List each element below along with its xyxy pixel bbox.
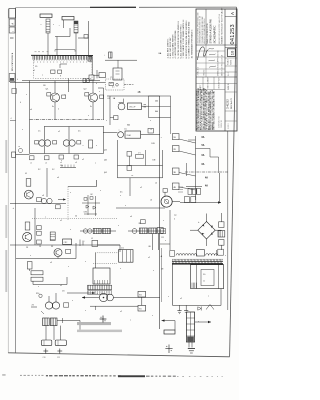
connector stub right bbox=[93, 74, 99, 76]
bracket tick bbox=[62, 318, 64, 323]
resistor network RN3 bbox=[50, 232, 55, 240]
wire top rail y80.6 bbox=[22, 80, 100, 82]
svg-text:x6: x6 bbox=[60, 162, 62, 164]
capacitor C8 bbox=[92, 240, 98, 246]
scan smudge 3 bbox=[5, 250, 7, 292]
slant wire 1 bbox=[179, 139, 196, 143]
left vertical x172.5 bbox=[172, 264, 174, 305]
svg-text:x: x bbox=[168, 296, 169, 298]
svg-text:x: x bbox=[153, 270, 154, 272]
inductor L4 bbox=[149, 228, 157, 234]
resistor R41 vertical bbox=[27, 262, 32, 269]
svg-text:x: x bbox=[41, 24, 42, 26]
wire over boxes bbox=[186, 186, 202, 188]
right bus x159.7 bbox=[159, 96, 161, 329]
svg-text:x: x bbox=[120, 268, 121, 270]
small box x115 bbox=[114, 116, 118, 120]
svg-text:+n: +n bbox=[131, 175, 133, 177]
resistor R13 bbox=[100, 95, 104, 98]
svg-text:x: x bbox=[161, 137, 162, 139]
svg-text:x2: x2 bbox=[82, 159, 84, 161]
connector J5 pin labels bbox=[34, 61, 90, 62]
title block divider h77 bbox=[196, 76, 237, 78]
svg-text:x: x bbox=[22, 129, 23, 131]
svg-text:x: x bbox=[96, 145, 97, 147]
inductor bar L5 bbox=[164, 330, 175, 334]
transformer T2 box bbox=[93, 268, 110, 284]
ground under tall comp bbox=[188, 342, 190, 348]
wire x29.7 drop bbox=[29, 269, 31, 271]
svg-text:x: x bbox=[120, 195, 121, 197]
svg-text:8: 8 bbox=[96, 83, 97, 85]
svg-text:x: x bbox=[95, 163, 96, 165]
svg-text:A: A bbox=[230, 12, 235, 15]
wire bottom bus y82 bbox=[10, 82, 105, 84]
transistor Q2 bbox=[89, 93, 98, 102]
border left outer bbox=[7, 9, 9, 353]
svg-text:DESCRIPTION: DESCRIPTION bbox=[219, 77, 221, 89]
svg-text:x2: x2 bbox=[120, 311, 122, 313]
svg-text:x: x bbox=[85, 261, 86, 263]
wire Q4 up bbox=[68, 127, 70, 141]
long wire y297 bbox=[82, 297, 99, 299]
coil box bbox=[196, 250, 204, 256]
svg-text:CR2: CR2 bbox=[64, 242, 68, 244]
wire box bottom right bbox=[220, 289, 222, 306]
svg-text:x: x bbox=[45, 217, 46, 219]
gate bracket bbox=[119, 99, 124, 103]
svg-text:CR3: CR3 bbox=[84, 212, 87, 214]
bus dash-dot y119.5 bbox=[30, 119, 105, 121]
capacitor C2 pair bbox=[83, 79, 86, 83]
footer dark segment bbox=[118, 375, 145, 377]
svg-text:920 DISC DRIVE SCOTTS VALLEY C: 920 DISC DRIVE SCOTTS VALLEY CA bbox=[218, 13, 221, 44]
svg-text:9. CONNECT SHIELD AT SINGLE EN: 9. CONNECT SHIELD AT SINGLE END bbox=[188, 21, 191, 58]
wire rail y153.5 bbox=[30, 153, 104, 155]
wire osc right bbox=[142, 105, 149, 107]
svg-text:x: x bbox=[65, 94, 66, 96]
wire rail y245 bbox=[10, 244, 120, 246]
wire x129 drop bbox=[128, 156, 130, 166]
svg-text:4. LAST REF DES USED R88: 4. LAST REF DES USED R88 bbox=[174, 30, 177, 59]
coil arcs 1 bbox=[176, 254, 197, 256]
resistor R19 bbox=[59, 155, 64, 159]
left border tick bbox=[10, 120, 16, 122]
diode CR8 bbox=[198, 307, 201, 310]
left small box bbox=[12, 89, 16, 94]
label 2B box bbox=[148, 128, 153, 133]
svg-text:x2: x2 bbox=[58, 131, 60, 133]
svg-text:x: x bbox=[152, 315, 153, 317]
wire Q1 collector up bbox=[54, 81, 56, 93]
wire y231 right bbox=[128, 230, 165, 232]
inductor pair hatched box 2 bbox=[50, 318, 57, 326]
small circle node bbox=[18, 148, 22, 152]
svg-text:L1: L1 bbox=[91, 238, 93, 240]
label box 3D bbox=[172, 168, 179, 174]
svg-text:x4: x4 bbox=[30, 109, 32, 111]
wire y306 bbox=[90, 305, 138, 307]
wire cluster h bbox=[82, 202, 100, 204]
transistor Q6c bbox=[47, 198, 52, 203]
resistor R4 bbox=[58, 70, 62, 73]
wire y245 stub bbox=[98, 244, 120, 246]
revision dash bbox=[10, 37, 14, 39]
capacitor to gnd 1 bbox=[179, 305, 181, 310]
right stack wire bbox=[220, 213, 222, 222]
dotted line y218.5 bbox=[32, 218, 118, 220]
wire horiz y38 bbox=[78, 37, 89, 39]
scan smudge 1 bbox=[5, 140, 7, 173]
box inner ticks bbox=[191, 283, 193, 288]
box inner rect bbox=[201, 270, 214, 286]
staircase h2 bbox=[196, 148, 211, 150]
IC U2 box bbox=[125, 131, 141, 138]
svg-text:6. ALL DIODES ARE IN4148 TYPE: 6. ALL DIODES ARE IN4148 TYPE X bbox=[179, 24, 182, 59]
svg-text:24: 24 bbox=[75, 216, 77, 218]
svg-text:R50: R50 bbox=[36, 293, 39, 295]
svg-text:F33657-82: F33657-82 bbox=[221, 120, 223, 128]
slant wire 3 bbox=[179, 173, 196, 177]
resistor R32 bbox=[37, 198, 42, 202]
svg-text:4: 4 bbox=[58, 109, 59, 111]
footer right marks bbox=[177, 375, 223, 378]
tick marks left of boxes bbox=[178, 186, 183, 188]
svg-text:x: x bbox=[30, 255, 31, 257]
transistor Q3 pair bbox=[39, 140, 45, 146]
footer microfilm text bbox=[2, 374, 121, 376]
svg-text:x: x bbox=[61, 160, 62, 162]
svg-text:x4: x4 bbox=[57, 177, 59, 179]
tick dashes row bbox=[60, 167, 76, 169]
bead FB2 bbox=[132, 229, 137, 234]
connector J5 pin row bbox=[31, 54, 93, 56]
staircase h3 bbox=[210, 156, 219, 158]
resistor R40 bbox=[66, 249, 71, 253]
resistor R51 bbox=[64, 303, 69, 307]
svg-text:4A: 4A bbox=[205, 177, 208, 180]
terminator box bbox=[99, 73, 105, 78]
svg-text:8. RESISTOR PACK VALUES SHOWN: 8. RESISTOR PACK VALUES SHOWN X bbox=[185, 20, 188, 59]
inductor pair hatched box 1 bbox=[43, 318, 50, 326]
vertical x219.5 bbox=[219, 173, 221, 203]
wire rail y126.5 bbox=[44, 126, 104, 128]
crystal Y1 bbox=[109, 82, 113, 85]
label box 4D bbox=[172, 183, 179, 189]
box mid bbox=[113, 68, 122, 80]
oscillator dashed box Y1 bbox=[106, 79, 125, 90]
svg-text:x: x bbox=[225, 255, 226, 257]
svg-text:R60: R60 bbox=[139, 295, 142, 297]
svg-text:x4: x4 bbox=[130, 216, 132, 218]
resistor R42 box bbox=[31, 271, 43, 275]
wire stub y117 bbox=[110, 117, 114, 119]
dash-dot wire y172 bbox=[185, 171, 228, 173]
svg-text:4: 4 bbox=[20, 102, 21, 104]
transistor pair Q10 bbox=[45, 302, 52, 309]
svg-text:x: x bbox=[150, 120, 151, 122]
transformer winding row 2 bbox=[88, 291, 112, 295]
resistor R22 bbox=[127, 152, 132, 157]
coil arcs 2 bbox=[206, 254, 218, 256]
vertical comp right bbox=[89, 140, 93, 148]
svg-text:(04: (04 bbox=[104, 172, 107, 174]
capacitor can C20 bbox=[41, 340, 51, 346]
svg-text:x2: x2 bbox=[148, 257, 150, 259]
wire x145 vertical bbox=[145, 150, 147, 166]
P2 top mark bbox=[163, 189, 167, 193]
resistor R11 bbox=[62, 95, 66, 98]
svg-text:R61: R61 bbox=[139, 309, 142, 311]
wire cluster v1 bbox=[87, 195, 89, 215]
svg-text:x: x bbox=[125, 205, 126, 207]
wire y231 left bbox=[80, 230, 116, 232]
svg-text:ST4000-A 41250 PW: ST4000-A 41250 PW bbox=[208, 19, 212, 44]
wire Q10 up bbox=[48, 296, 50, 302]
left bus vertical bbox=[29, 81, 31, 154]
svg-text:2XA1: 2XA1 bbox=[127, 134, 131, 137]
svg-text:x5: x5 bbox=[60, 285, 62, 287]
wire Q2 emitter down bbox=[92, 102, 94, 120]
connector label J2 bbox=[62, 17, 74, 20]
svg-text:x4: x4 bbox=[45, 163, 47, 165]
svg-text:x: x bbox=[70, 229, 71, 231]
svg-text:x2: x2 bbox=[30, 163, 32, 165]
connector J5 bracket bbox=[55, 49, 75, 51]
bead FB1 bbox=[83, 229, 87, 233]
wire rail y258 bbox=[16, 258, 76, 260]
svg-text:7. SEE SHEET 2 FOR SPARE GATES: 7. SEE SHEET 2 FOR SPARE GATES XX bbox=[182, 19, 185, 59]
wire pinrow right down bbox=[90, 56, 92, 61]
wire right bus link x103.5 bbox=[103, 127, 105, 154]
wire y132.6 left bbox=[103, 132, 118, 134]
svg-text:1 OF 2: 1 OF 2 bbox=[228, 124, 230, 130]
wire rail y203.5 bbox=[10, 203, 66, 205]
right stack resistor bbox=[219, 222, 224, 228]
svg-text:x1: x1 bbox=[33, 70, 35, 72]
left bottom small box bbox=[161, 229, 166, 234]
transistor Q7 bbox=[23, 232, 32, 241]
svg-text:x3: x3 bbox=[50, 262, 52, 264]
label box 2D bbox=[172, 146, 179, 152]
wire rail y96 bbox=[107, 95, 160, 97]
slant wire 4 bbox=[179, 187, 196, 190]
wire x92 down bbox=[91, 61, 93, 75]
svg-text:x: x bbox=[72, 300, 73, 302]
wire drops under L rows bbox=[152, 234, 154, 250]
resistor R16 bbox=[77, 141, 81, 144]
capacitor C1 bbox=[84, 35, 88, 39]
staircase v1 bbox=[209, 149, 211, 158]
svg-text:10. TERMINATE PER TABLE 3: 10. TERMINATE PER TABLE 3 bbox=[190, 29, 193, 59]
dotted line 2 bbox=[93, 263, 117, 265]
three resistor boxes bbox=[188, 188, 192, 194]
resistor R3 bbox=[51, 70, 55, 73]
wire J2 down bbox=[63, 20, 65, 28]
svg-text:(34: (34 bbox=[104, 160, 107, 162]
right stack cap hatched bbox=[218, 231, 225, 237]
svg-text:x: x bbox=[118, 225, 119, 227]
svg-text:SH 1: SH 1 bbox=[228, 72, 230, 76]
wire dash-dot osc bbox=[124, 84, 134, 86]
step wire bbox=[55, 28, 70, 37]
svg-text:x2: x2 bbox=[140, 187, 142, 189]
sheet 10 box bbox=[227, 49, 235, 57]
cross ground 2 bbox=[168, 345, 170, 354]
svg-text:11: 11 bbox=[203, 281, 205, 283]
svg-text:6A: 6A bbox=[202, 136, 205, 139]
title block divider right column bbox=[224, 9, 226, 131]
transistor Q5b bbox=[118, 132, 124, 138]
resistor R35 bbox=[37, 226, 42, 230]
labels right column bbox=[202, 136, 209, 188]
svg-text:x 8: x 8 bbox=[110, 83, 112, 85]
diode CR5 bbox=[93, 206, 96, 209]
capacitor to gnd 2 bbox=[185, 305, 187, 310]
coil end box bbox=[218, 249, 224, 255]
svg-text:SCHEMATIC: SCHEMATIC bbox=[213, 25, 217, 44]
staircase h1 bbox=[188, 139, 196, 141]
svg-text:x: x bbox=[100, 190, 101, 192]
wire Q2 collector up bbox=[92, 81, 94, 93]
svg-text:4: 4 bbox=[17, 79, 18, 81]
title block frame bbox=[196, 9, 237, 131]
angle mark bbox=[206, 305, 214, 310]
vertical x195.5 bbox=[195, 136, 197, 200]
wire L5 bbox=[174, 321, 176, 330]
resistor pack RN2 bbox=[74, 21, 78, 33]
grid label box bbox=[149, 96, 171, 118]
svg-text:x: x bbox=[130, 320, 131, 322]
svg-text:x6: x6 bbox=[150, 200, 152, 202]
svg-text:d: d bbox=[151, 129, 152, 131]
wire Q4 down bbox=[68, 146, 70, 154]
resistor R10 bbox=[47, 93, 51, 96]
svg-text:REV STATUS REV A: REV STATUS REV A bbox=[11, 52, 14, 71]
svg-text:DN: DN bbox=[152, 143, 156, 145]
left stub y307 bbox=[31, 306, 37, 308]
scan smudge 2 bbox=[5, 205, 7, 238]
step wire bbox=[33, 277, 67, 285]
node circle bbox=[39, 294, 42, 297]
wire cluster h2 bbox=[84, 213, 97, 215]
wire U2 right bbox=[141, 134, 160, 136]
approval row lines bbox=[196, 50, 225, 52]
svg-text:SIZE D: SIZE D bbox=[228, 83, 230, 90]
wire arrow left y320 bbox=[162, 320, 176, 322]
bridge wires bbox=[206, 214, 208, 222]
svg-text:RM 10-8: RM 10-8 bbox=[204, 70, 206, 76]
wire Q8 drop bbox=[57, 257, 59, 259]
svg-text:OSC 2F: OSC 2F bbox=[129, 107, 136, 109]
tall component voltage reg bbox=[186, 312, 194, 342]
polarity plus C21 bbox=[59, 349, 61, 354]
svg-text:x: x bbox=[85, 310, 86, 312]
polarity plus C20 bbox=[45, 349, 47, 354]
svg-text:REV A-170: REV A-170 bbox=[230, 97, 233, 109]
gray bar 2 bbox=[77, 330, 122, 333]
svg-text:4: 4 bbox=[11, 118, 12, 120]
coil tick bbox=[215, 250, 217, 256]
bottom rail y305 bbox=[173, 304, 207, 306]
diode CR2 box bbox=[63, 239, 72, 244]
resistor pack RN1 bbox=[46, 19, 50, 33]
diode cluster CR3 bbox=[84, 198, 87, 201]
wire x130 drop bbox=[129, 178, 131, 196]
right bus double bbox=[161, 248, 163, 302]
svg-text:8s: 8s bbox=[52, 106, 54, 108]
wire tall comp right arrow bbox=[195, 321, 211, 323]
oscillator module box bbox=[128, 103, 142, 109]
svg-text:0A: 0A bbox=[202, 154, 205, 157]
wire y60 bbox=[105, 59, 137, 61]
gray bar 1 bbox=[77, 322, 111, 325]
svg-text:x: x bbox=[165, 240, 166, 242]
svg-text:x2: x2 bbox=[155, 183, 157, 185]
wire drop x68 bbox=[68, 78, 70, 92]
left edge component bbox=[12, 152, 16, 157]
svg-text:x: x bbox=[38, 286, 39, 288]
tick v x186 bbox=[186, 163, 188, 176]
svg-text:6A: 6A bbox=[202, 163, 205, 166]
svg-text:x8: x8 bbox=[75, 162, 77, 164]
svg-text:NONE: NONE bbox=[231, 59, 233, 65]
wire x118 drop bbox=[117, 60, 119, 68]
connector P2 circle bbox=[161, 196, 172, 207]
svg-text:C31: C31 bbox=[161, 237, 164, 239]
small box above L3 bbox=[141, 220, 146, 224]
svg-text:x2: x2 bbox=[60, 220, 62, 222]
svg-text:4A: 4A bbox=[205, 185, 208, 188]
wire x95.5 bbox=[95, 253, 97, 268]
tick x95 bbox=[95, 306, 97, 310]
inductor L2 bbox=[102, 228, 110, 233]
gate symbol in shield bbox=[60, 64, 67, 68]
svg-text:x: x bbox=[68, 266, 69, 268]
wire x76 bbox=[75, 243, 77, 259]
box end row bbox=[157, 228, 163, 234]
svg-text:x: x bbox=[26, 94, 27, 96]
svg-text:(24: (24 bbox=[104, 150, 107, 152]
svg-text:4B: 4B bbox=[138, 91, 141, 94]
revision cell 3 bbox=[9, 74, 15, 82]
resistor R36 bbox=[37, 231, 42, 235]
svg-text:2*1: 2*1 bbox=[138, 152, 141, 154]
svg-text:D-41253: D-41253 bbox=[227, 99, 230, 109]
small box row start bbox=[170, 250, 175, 256]
wire y320 right bbox=[57, 320, 80, 322]
title block divider h45 bbox=[196, 44, 237, 46]
svg-text:041253: 041253 bbox=[230, 24, 236, 44]
resistor box R61 bbox=[138, 305, 146, 311]
resistor R31 vertical bbox=[26, 179, 31, 187]
wire x47 vertical bbox=[46, 168, 48, 197]
right col cell lines bbox=[225, 57, 237, 59]
resistor R34 vertical bbox=[25, 222, 30, 230]
vertical x170 bbox=[169, 210, 171, 250]
svg-text:x: x bbox=[83, 145, 84, 147]
transformer winding row 1 bbox=[88, 285, 112, 289]
svg-text:x: x bbox=[106, 120, 107, 122]
resistor R20 bbox=[74, 155, 79, 159]
svg-text:x: x bbox=[99, 91, 100, 93]
wire y293 bbox=[67, 292, 95, 294]
wire R60-R61 bbox=[141, 297, 143, 305]
wire cluster v2 bbox=[95, 196, 97, 216]
svg-text:WRITTEN CONSENT OF SEAGATE TEC: WRITTEN CONSENT OF SEAGATE TECHN bbox=[213, 91, 216, 130]
arrow right 3 bbox=[92, 292, 95, 294]
delay line box DL2 bbox=[119, 250, 133, 263]
